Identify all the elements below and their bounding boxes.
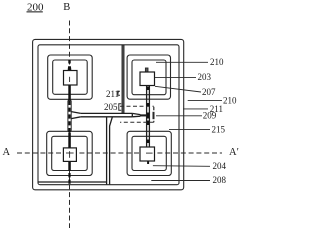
bottom horizontal electrode trace: [38, 181, 107, 183]
section line A (horizontal dashed): [17, 152, 222, 154]
leader line 203: [155, 77, 196, 79]
svg-text:A′: A′: [229, 147, 239, 158]
top-right cell inner ring 207: [132, 60, 166, 95]
center bit line bar: [81, 112, 133, 114]
leader line 204: [153, 165, 210, 168]
svg-text:210: 210: [223, 95, 237, 105]
bottom-left pad: [63, 148, 76, 162]
svg-text:210: 210: [210, 57, 224, 67]
svg-text:215: 215: [212, 125, 226, 135]
section line B (vertical dashed): [69, 21, 71, 229]
right column trace 209: [147, 86, 150, 147]
bottom-right pad 204: [140, 147, 155, 161]
svg-text:204: 204: [213, 161, 227, 171]
svg-text:211: 211: [106, 89, 119, 99]
tab flare above top-left pad: [68, 66, 72, 71]
bottom-right cell inner ring: [132, 136, 166, 170]
dashed region box 205: [120, 106, 154, 122]
left column trace outline 215: [68, 99, 71, 134]
top-left pad 203: [64, 71, 78, 86]
left funnel taper: [71, 112, 81, 119]
bottom-right cell outer ring 204: [127, 131, 171, 175]
bracket for 211': [118, 91, 120, 95]
section dash inside bottom-right pad: [146, 152, 153, 154]
leader line 209: [156, 115, 202, 117]
upper branch via: [122, 45, 124, 114]
right funnel taper: [132, 113, 140, 116]
leader line 210 right: [188, 99, 222, 101]
outer guard ring 208: [33, 39, 184, 189]
top-left cell inner ring 207: [53, 60, 87, 94]
section dash inside top-left pad: [69, 77, 71, 82]
top-right cell outer ring 210: [127, 55, 170, 99]
lower branch via: [107, 117, 113, 185]
svg-text:207: 207: [202, 87, 216, 97]
leader line 208: [151, 180, 210, 182]
top-right pad 203: [140, 72, 155, 86]
svg-text:A: A: [3, 147, 11, 158]
svg-text:205: 205: [104, 102, 118, 112]
top-left cell outer ring 210: [48, 55, 92, 99]
underline of 200: [27, 11, 43, 13]
thick via dashes right column: [147, 87, 149, 165]
top tab on top-right pad: [145, 68, 148, 72]
leader line 211: [183, 108, 208, 110]
thick via dashes left column: [68, 60, 71, 184]
right cap joint: [131, 113, 133, 116]
section dashes inside bottom-left pad: [69, 151, 71, 158]
svg-text:208: 208: [213, 175, 227, 185]
bottom-left cell inner ring: [52, 136, 87, 170]
bottom-left cell outer ring: [47, 131, 92, 175]
inner guard ring: [38, 45, 179, 185]
leader line 215: [169, 128, 210, 130]
svg-text:B: B: [63, 2, 70, 13]
svg-text:209: 209: [203, 111, 217, 121]
leader line 210 top: [156, 61, 208, 63]
leader line 207: [155, 86, 201, 92]
svg-text:203: 203: [198, 72, 212, 82]
bracket for 205: [119, 104, 121, 111]
